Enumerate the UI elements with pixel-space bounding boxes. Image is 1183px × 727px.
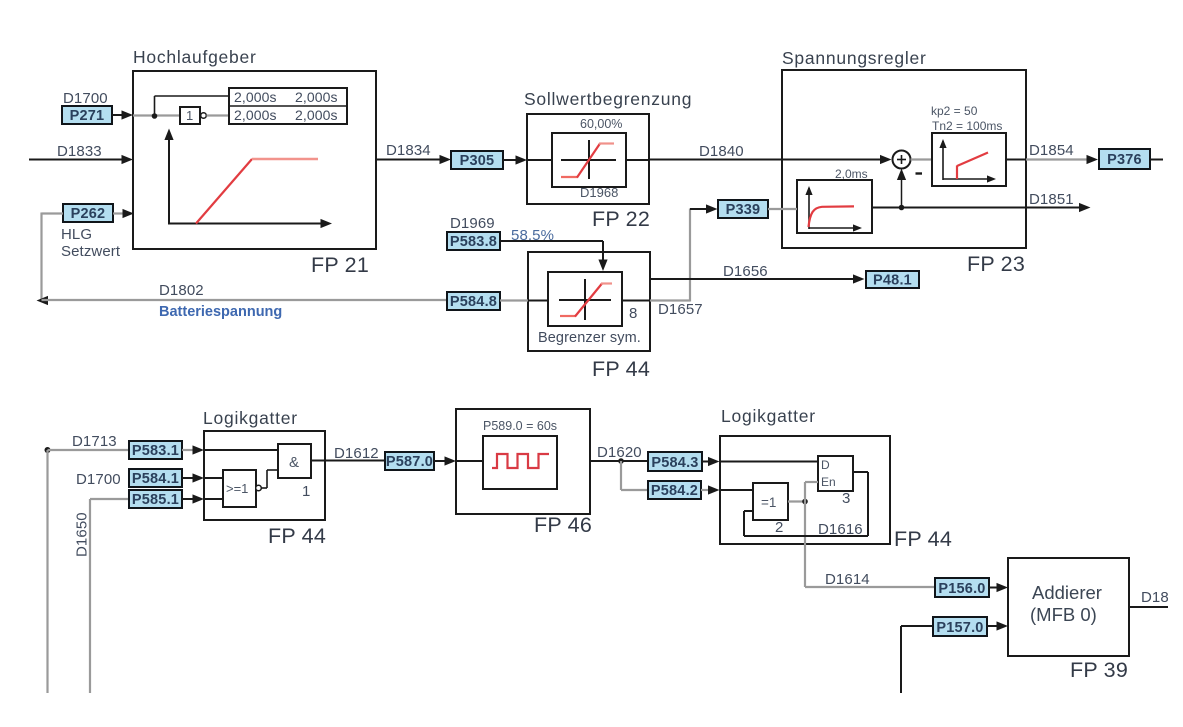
svg-text:2,000s: 2,000s: [295, 89, 338, 105]
svg-text:Setzwert: Setzwert: [61, 243, 121, 260]
svg-text:(MFB 0): (MFB 0): [1030, 604, 1097, 625]
svg-text:D1650: D1650: [74, 512, 91, 557]
wire D1840 to summing point: [649, 155, 892, 164]
svg-text:D1616: D1616: [818, 521, 863, 538]
block Begrenzer FP44 outline: [528, 252, 650, 351]
wire branch down to P584.2: [621, 461, 648, 490]
wire inverter to table: [207, 114, 230, 116]
ramp time table: [229, 88, 347, 124]
svg-text:HLG: HLG: [61, 226, 92, 243]
wire P584.8 to limiter: [500, 299, 548, 301]
wire P583.8 down into limiter: [500, 241, 608, 271]
block oscillator FP46 outline: [456, 409, 590, 514]
block Logikgatter right FP44 outline: [720, 436, 890, 544]
svg-text:2: 2: [775, 519, 783, 536]
svg-text:2,000s: 2,000s: [295, 107, 338, 123]
parameter box P583.1: [129, 441, 182, 459]
wire into oscillator symbol: [456, 460, 483, 462]
wire P157.0 arrow: [987, 621, 1008, 630]
svg-text:=1: =1: [761, 495, 776, 510]
svg-text:P157.0: P157.0: [936, 620, 983, 636]
svg-text:D1802: D1802: [159, 282, 204, 299]
wire junction to table: [155, 95, 230, 97]
ramp curve red: [196, 159, 318, 224]
wire OR to AND: [262, 470, 279, 488]
svg-text:D1833: D1833: [57, 143, 102, 160]
wire P339 to smoothing box: [768, 208, 797, 210]
svg-text:FP 44: FP 44: [894, 527, 952, 551]
svg-text:D1700: D1700: [76, 471, 121, 488]
svg-text:2,000s: 2,000s: [234, 89, 277, 105]
wire D1614 to P156.0: [805, 586, 935, 588]
parameter box P271: [62, 106, 112, 124]
parameter box P156.0: [935, 578, 989, 597]
wire block output to P305: [376, 155, 451, 164]
wire P262 to block with arrow: [113, 209, 134, 218]
parameter box P584.1: [129, 469, 182, 487]
block Logikgatter left FP44 outline: [204, 431, 325, 520]
limiter symbol box FP22: [552, 133, 626, 187]
svg-text:P305: P305: [460, 153, 495, 169]
XOR gate =1: [753, 483, 788, 520]
wire vertical drop left: [46, 450, 48, 693]
wire P584.3 row to D input: [720, 461, 818, 463]
svg-text:P376: P376: [1107, 152, 1142, 168]
AND gate &: [278, 444, 311, 478]
wire D1833 input: [29, 155, 133, 164]
svg-text:D: D: [821, 458, 830, 472]
wire P585.1 arrow: [182, 494, 204, 503]
svg-text:Sollwertbegrenzung: Sollwertbegrenzung: [524, 89, 692, 109]
wire P587.0 arrow into FP46: [434, 456, 456, 465]
svg-text:Logikgatter: Logikgatter: [203, 408, 298, 428]
parameter box P262: [63, 204, 113, 222]
svg-text:FP 23: FP 23: [967, 252, 1025, 276]
smoothing box: [797, 180, 872, 233]
svg-text:D1713: D1713: [72, 433, 117, 450]
svg-text:P48.1: P48.1: [873, 273, 912, 289]
wire XOR output to En and D1614: [788, 482, 818, 587]
wire D1656 to P48.1: [650, 274, 865, 283]
wire limiter output D1657: [622, 204, 718, 301]
minus sign: [916, 172, 923, 174]
wire P156.0 arrow: [989, 583, 1008, 592]
wire summing point to PI box: [911, 158, 933, 160]
wire D1620 output: [590, 458, 648, 464]
svg-text:P584.2: P584.2: [651, 483, 698, 499]
svg-text:P262: P262: [71, 206, 106, 222]
svg-text:FP 39: FP 39: [1070, 658, 1128, 682]
svg-text:P271: P271: [70, 108, 105, 124]
block Sollwertbegrenzung FP22 outline: [527, 114, 649, 204]
summing point: [893, 151, 911, 169]
svg-text:kp2 = 50: kp2 = 50: [931, 104, 978, 118]
wire P584.1 arrow: [182, 473, 204, 482]
wire D1612: [311, 460, 385, 462]
svg-text:FP 44: FP 44: [268, 524, 326, 548]
parameter box P305: [451, 151, 503, 169]
parameter box P157.0: [933, 617, 987, 636]
wire battery voltage riser to P262: [42, 213, 64, 301]
parameter box P48.1: [866, 271, 919, 289]
svg-text:P585.1: P585.1: [132, 492, 179, 508]
svg-text:Tn2 = 100ms: Tn2 = 100ms: [932, 119, 1002, 133]
node junction on P271 wire: [152, 96, 158, 119]
svg-text:3: 3: [842, 490, 850, 507]
svg-text:D1834: D1834: [386, 142, 431, 159]
parameter box P584.3: [648, 452, 702, 471]
svg-text:P156.0: P156.0: [938, 581, 985, 597]
svg-text:2,000s: 2,000s: [234, 107, 277, 123]
parameter box P584.2: [648, 481, 701, 499]
wire P584.3 arrow: [702, 457, 720, 466]
wire Addierer output: [1129, 606, 1168, 608]
svg-text:FP 44: FP 44: [592, 357, 650, 381]
wire input riser to P157.0: [901, 626, 933, 693]
svg-text:P589.0 = 60s: P589.0 = 60s: [483, 419, 557, 433]
svg-text:Begrenzer sym.: Begrenzer sym.: [538, 330, 641, 346]
inverter gate 1: [180, 107, 206, 124]
svg-text:En: En: [821, 475, 836, 489]
block Addierer FP39 outline: [1008, 558, 1129, 656]
limiter symbol box FP44: [548, 272, 622, 326]
arrow left at D1802 corner: [37, 296, 49, 305]
svg-text:P584.8: P584.8: [450, 294, 497, 310]
svg-text:1: 1: [186, 108, 193, 123]
svg-text:FP 46: FP 46: [534, 513, 592, 537]
svg-text:D1968: D1968: [580, 185, 618, 200]
node junction D1713: [45, 447, 51, 453]
svg-text:Addierer: Addierer: [1032, 582, 1102, 603]
wire P584.2 row to XOR input: [720, 489, 753, 491]
wire gray inside block to inverter: [133, 114, 180, 116]
label HLG Setzwert: [61, 226, 121, 260]
parameter box P583.8: [447, 232, 500, 250]
wire D1650 vertical: [90, 499, 129, 693]
svg-text:Batteriespannung: Batteriespannung: [159, 304, 282, 320]
wire flipflop feedback loop: [744, 472, 868, 536]
svg-text:D1700: D1700: [63, 90, 108, 107]
svg-text:P583.1: P583.1: [132, 443, 179, 459]
svg-text:P584.3: P584.3: [651, 455, 698, 471]
svg-text:60,00%: 60,00%: [580, 117, 622, 131]
svg-text:Logikgatter: Logikgatter: [721, 406, 816, 426]
wire P271 to block with arrow: [112, 110, 133, 119]
parameter box P587.0: [385, 452, 434, 470]
wire P584.2 arrow: [701, 485, 720, 494]
svg-text:D1614: D1614: [825, 571, 870, 588]
parameter box P339: [718, 200, 768, 218]
parameter box P376: [1099, 149, 1150, 169]
OR gate >=1: [223, 470, 261, 507]
svg-text:FP 22: FP 22: [592, 207, 650, 231]
D flipflop box: [818, 456, 853, 491]
wire P583.1 arrow: [182, 445, 204, 454]
svg-text:>=1: >=1: [226, 481, 248, 496]
svg-text:D1620: D1620: [597, 444, 642, 461]
svg-text:Spannungsregler: Spannungsregler: [782, 48, 927, 68]
svg-text:D1851: D1851: [1029, 191, 1074, 208]
parameter box P584.8: [447, 292, 500, 310]
svg-text:D1840: D1840: [699, 143, 744, 160]
wire feedback up into summing point: [897, 169, 906, 211]
svg-text:1: 1: [302, 483, 310, 500]
wire PI output D1854 to P376: [1006, 155, 1098, 164]
wire P376 out: [1150, 159, 1163, 161]
svg-text:D1656: D1656: [723, 263, 768, 280]
wire input rows inside left gate: [204, 450, 278, 499]
svg-text:P584.1: P584.1: [132, 471, 179, 487]
oscillator symbol box: [483, 436, 557, 489]
svg-text:8: 8: [629, 305, 637, 322]
wire through limiter: [527, 159, 649, 161]
block Spannungsregler FP23 outline: [782, 70, 1026, 248]
svg-text:P587.0: P587.0: [386, 454, 433, 470]
svg-text:D18: D18: [1141, 589, 1169, 606]
PI controller box: [932, 133, 1006, 186]
svg-text:D1969: D1969: [450, 215, 495, 232]
ramp graph axes: [164, 129, 332, 229]
svg-text:P339: P339: [726, 202, 761, 218]
svg-text:P583.8: P583.8: [450, 234, 497, 250]
svg-text:&: &: [289, 454, 299, 471]
wire D1713 to P583.1: [48, 449, 130, 451]
svg-text:2,0ms: 2,0ms: [835, 167, 868, 181]
wire smoothing output D1851: [872, 203, 1091, 212]
block Hochlaufgeber FP21 outline: [133, 71, 376, 249]
wire D1802 battery voltage: [42, 299, 448, 301]
svg-text:Hochlaufgeber: Hochlaufgeber: [133, 47, 257, 67]
svg-text:D1854: D1854: [1029, 142, 1074, 159]
svg-text:FP 21: FP 21: [311, 253, 369, 277]
svg-text:D1612: D1612: [334, 445, 379, 462]
svg-text:D1657: D1657: [658, 301, 703, 318]
parameter box P585.1: [129, 490, 182, 508]
wire P305 to limiter with arrow: [503, 155, 527, 164]
